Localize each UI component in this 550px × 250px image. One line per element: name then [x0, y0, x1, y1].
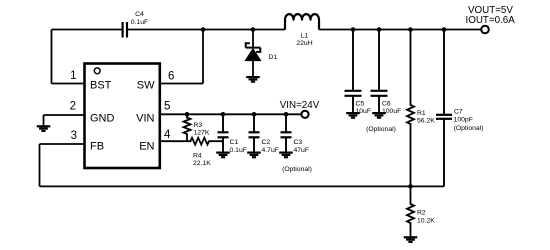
node FB divider junction: [408, 184, 413, 189]
svg-text:(Optional): (Optional): [454, 125, 484, 132]
wire D1 anode to ground: [252, 61, 254, 77]
wire pin 6 SW lead: [160, 83, 203, 85]
capacitor C5: [345, 30, 362, 113]
ground (R2): [404, 237, 418, 242]
ground (D1 anode): [246, 77, 260, 82]
ground (C5): [346, 113, 360, 118]
capacitor C7: [436, 30, 452, 187]
svg-text:R4: R4: [193, 153, 202, 160]
node C6 tap: [377, 27, 382, 32]
node R3 top on VIN: [185, 112, 190, 117]
svg-text:1: 1: [70, 70, 76, 82]
resistor R2: [407, 186, 414, 237]
svg-text:R1: R1: [417, 110, 426, 117]
svg-text:C1: C1: [230, 139, 239, 146]
svg-text:2: 2: [70, 101, 76, 113]
wire pin 2 GND lead: [44, 114, 86, 116]
capacitor C6: [371, 30, 388, 113]
wire FB bottom feedback run: [40, 185, 445, 187]
svg-text:22.1K: 22.1K: [193, 160, 211, 167]
svg-text:C4: C4: [135, 11, 144, 18]
svg-text:VIN=24V: VIN=24V: [280, 100, 320, 111]
wire BST vertical drop: [51, 30, 53, 84]
svg-text:GND: GND: [90, 113, 115, 125]
capacitor C1: [218, 114, 229, 152]
svg-text:47uF: 47uF: [294, 147, 310, 154]
inductor L1: [285, 14, 319, 29]
svg-text:VIN: VIN: [136, 113, 154, 125]
wire D1 cathode riser: [252, 30, 254, 47]
op-amp U1 regulator IC body: [85, 64, 160, 169]
diode D1 schottky: [246, 43, 261, 52]
resistor R4: [187, 138, 223, 145]
node VOUT terminal: [481, 26, 489, 34]
ground (pin 2 GND): [37, 126, 51, 131]
svg-text:C7: C7: [454, 108, 463, 115]
svg-text:5: 5: [164, 101, 170, 113]
wire pin 1 BST lead: [52, 83, 86, 85]
svg-text:22uH: 22uH: [296, 40, 312, 47]
capacitor C2: [249, 114, 260, 152]
svg-text:6: 6: [168, 71, 174, 83]
svg-text:EN: EN: [139, 141, 154, 153]
capacitor C3: [281, 114, 292, 152]
node C2 top on VIN: [252, 112, 257, 117]
svg-text:0.1uF: 0.1uF: [131, 19, 148, 26]
svg-text:4: 4: [164, 129, 171, 141]
node R1 tap: [408, 27, 413, 32]
wire top rail L1 to VOUT terminal: [319, 29, 481, 31]
svg-text:0.1uF: 0.1uF: [230, 147, 247, 154]
svg-text:56.2K: 56.2K: [417, 118, 435, 125]
node C1 top on VIN: [221, 112, 226, 117]
svg-text:R3: R3: [194, 122, 203, 129]
svg-text:BST: BST: [90, 80, 112, 92]
svg-text:(Optional): (Optional): [282, 166, 312, 173]
svg-text:C5: C5: [356, 101, 365, 108]
ground (C3): [279, 153, 293, 158]
pin 1 indicator circle: [94, 68, 100, 74]
svg-text:C2: C2: [262, 139, 271, 146]
svg-text:L1: L1: [301, 33, 309, 40]
node C3 top on VIN: [284, 112, 289, 117]
svg-text:SW: SW: [137, 80, 155, 92]
svg-text:D1: D1: [269, 54, 278, 61]
svg-text:100pF: 100pF: [454, 117, 473, 124]
wire pin 3 FB lead: [40, 143, 86, 145]
node SW/C4 junction: [201, 27, 206, 32]
svg-text:10.2K: 10.2K: [417, 218, 435, 225]
wire pin 5 VIN lead: [160, 113, 302, 115]
wire FB vertical drop: [39, 144, 41, 186]
wire top rail SW junction to L1: [203, 29, 285, 31]
svg-text:C3: C3: [294, 139, 303, 146]
svg-text:3: 3: [71, 130, 77, 142]
svg-text:C6: C6: [382, 101, 391, 108]
ground (C1): [216, 153, 230, 158]
svg-text:IOUT=0.6A: IOUT=0.6A: [466, 15, 516, 26]
node D1 tap: [251, 27, 256, 32]
wire pin 2 ground stub: [43, 115, 45, 126]
wire top rail C4 to SW junction: [128, 29, 203, 31]
svg-text:(Optional): (Optional): [366, 126, 396, 133]
node C5 tap: [351, 27, 356, 32]
svg-text:4.7uF: 4.7uF: [262, 147, 279, 154]
capacitor C4 bootstrap: [123, 22, 127, 38]
node C7 tap: [442, 27, 447, 32]
node VIN terminal: [301, 111, 308, 118]
ground (C6): [372, 113, 386, 118]
wire pin 4 EN lead: [160, 140, 187, 142]
ground (C2): [247, 153, 261, 158]
wire top rail left segment (BST to C4): [52, 29, 122, 31]
svg-text:R2: R2: [417, 210, 426, 217]
wire SW vertical riser: [202, 30, 204, 84]
resistor R3: [184, 114, 191, 141]
svg-text:127K: 127K: [194, 130, 210, 137]
resistor R1: [407, 30, 414, 187]
svg-text:FB: FB: [90, 141, 104, 153]
